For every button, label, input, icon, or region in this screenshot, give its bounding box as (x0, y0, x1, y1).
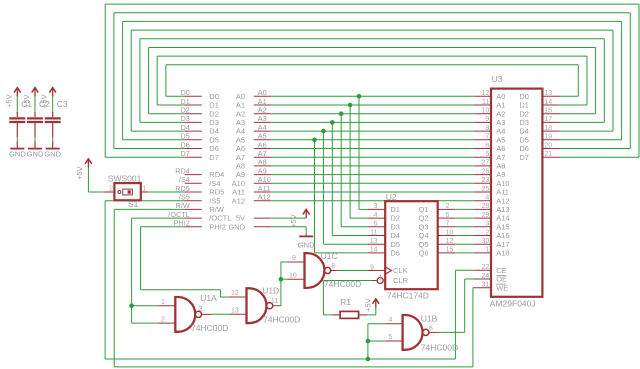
svg-text:12: 12 (231, 290, 239, 297)
svg-text:A7: A7 (258, 149, 267, 158)
svg-text:D4: D4 (209, 127, 219, 136)
svg-text:2: 2 (161, 316, 165, 323)
svg-text:1: 1 (485, 247, 489, 254)
svg-text:/OCTL: /OCTL (168, 210, 190, 219)
svg-text:A6: A6 (236, 144, 245, 153)
svg-text:A11: A11 (232, 188, 245, 197)
svg-text:D6: D6 (180, 140, 189, 149)
svg-text:A2: A2 (258, 106, 267, 115)
svg-text:74HC174D: 74HC174D (387, 291, 429, 301)
svg-text:5: 5 (389, 334, 393, 341)
svg-text:GND: GND (298, 241, 315, 250)
svg-text:D5: D5 (209, 135, 219, 144)
svg-text:29: 29 (482, 212, 490, 219)
svg-text:5: 5 (446, 212, 450, 219)
svg-text:74HC00D: 74HC00D (421, 342, 458, 352)
svg-text:7: 7 (446, 221, 450, 228)
svg-text:14: 14 (370, 247, 378, 254)
svg-text:A1: A1 (258, 97, 267, 106)
svg-text:4: 4 (374, 212, 378, 219)
svg-text:D3: D3 (519, 118, 529, 127)
svg-text:A9: A9 (236, 170, 245, 179)
svg-text:U3: U3 (492, 74, 503, 84)
svg-text:10: 10 (482, 108, 490, 115)
svg-text:A7: A7 (496, 153, 505, 162)
svg-text:A2: A2 (496, 109, 505, 118)
svg-text:PHI2: PHI2 (174, 219, 190, 228)
svg-text:+5V: +5V (289, 213, 298, 228)
svg-text:D1: D1 (519, 101, 529, 110)
svg-text:8: 8 (332, 263, 336, 270)
svg-text:OE: OE (496, 275, 507, 284)
svg-text:Q5: Q5 (418, 240, 428, 249)
svg-text:D2: D2 (180, 106, 189, 115)
svg-text:CLK: CLK (393, 266, 408, 275)
svg-text:D4: D4 (519, 127, 529, 136)
svg-text:D2: D2 (390, 214, 400, 223)
svg-text:1: 1 (379, 274, 383, 281)
svg-text:3: 3 (199, 306, 203, 313)
svg-text:D7: D7 (180, 149, 189, 158)
svg-text:RD5: RD5 (175, 184, 190, 193)
svg-text:8: 8 (485, 125, 489, 132)
svg-text:A13: A13 (496, 205, 509, 214)
svg-text:A10: A10 (496, 179, 509, 188)
svg-text:13: 13 (231, 308, 239, 315)
svg-text:13: 13 (370, 238, 378, 245)
svg-text:+5V: +5V (40, 93, 49, 108)
svg-text:6: 6 (485, 142, 489, 149)
svg-text:/S4: /S4 (209, 179, 220, 188)
svg-text:D2: D2 (519, 109, 529, 118)
svg-text:D7: D7 (519, 153, 529, 162)
svg-text:A3: A3 (236, 118, 245, 127)
svg-text:/S5: /S5 (179, 193, 190, 202)
svg-text:D3: D3 (180, 114, 189, 123)
svg-text:74HC00D: 74HC00D (191, 323, 228, 333)
svg-text:AM29F040J: AM29F040J (490, 299, 536, 309)
svg-text:10: 10 (446, 229, 454, 236)
svg-text:A3: A3 (258, 114, 267, 123)
svg-text:D5: D5 (519, 135, 529, 144)
svg-text:U1B: U1B (421, 314, 438, 324)
svg-text:R/W: R/W (209, 205, 225, 214)
svg-text:GND: GND (27, 150, 44, 159)
svg-text:4: 4 (389, 317, 393, 324)
svg-text:12: 12 (482, 90, 490, 97)
svg-text:74HC00D: 74HC00D (324, 279, 361, 289)
svg-text:/S5: /S5 (209, 196, 220, 205)
svg-text:PHI2: PHI2 (209, 222, 226, 231)
svg-text:5: 5 (485, 151, 489, 158)
svg-text:D6: D6 (519, 144, 529, 153)
svg-text:A0: A0 (496, 92, 505, 101)
svg-text:A8: A8 (236, 162, 245, 171)
svg-text:A0: A0 (236, 92, 245, 101)
svg-text:11: 11 (271, 298, 278, 305)
svg-text:D1: D1 (209, 101, 219, 110)
svg-text:D5: D5 (390, 240, 400, 249)
svg-text:D3: D3 (390, 222, 400, 231)
svg-text:24: 24 (482, 273, 490, 280)
svg-text:Q3: Q3 (418, 222, 428, 231)
svg-text:D3: D3 (209, 118, 219, 127)
svg-text:S1: S1 (128, 199, 139, 209)
svg-text:+5V: +5V (75, 165, 84, 180)
svg-text:A8: A8 (258, 158, 267, 167)
svg-text:RD4: RD4 (209, 170, 224, 179)
svg-text:C3: C3 (57, 99, 68, 109)
svg-text:+5V: +5V (22, 93, 31, 108)
svg-text:D7: D7 (209, 153, 219, 162)
svg-text:18: 18 (544, 125, 552, 132)
svg-text:A12: A12 (232, 196, 245, 205)
svg-text:9: 9 (292, 255, 296, 262)
svg-text:RD5: RD5 (209, 188, 224, 197)
svg-text:A10: A10 (258, 175, 271, 184)
svg-text:17: 17 (544, 116, 552, 123)
svg-text:WE: WE (496, 283, 508, 292)
svg-text:A4: A4 (496, 127, 505, 136)
svg-text:3: 3 (374, 203, 378, 210)
svg-text:A7: A7 (236, 153, 245, 162)
svg-text:A17: A17 (496, 240, 509, 249)
svg-text:D0: D0 (519, 92, 529, 101)
svg-text:A6: A6 (258, 140, 267, 149)
svg-text:+5V: +5V (364, 297, 373, 312)
svg-text:11: 11 (482, 99, 489, 106)
svg-text:A12: A12 (258, 193, 271, 202)
svg-text:D0: D0 (209, 92, 219, 101)
svg-text:U1C: U1C (321, 251, 338, 261)
svg-text:22: 22 (482, 264, 490, 271)
svg-text:SWS001: SWS001 (108, 173, 142, 183)
svg-text:A12: A12 (496, 196, 509, 205)
svg-text:D6: D6 (209, 144, 219, 153)
svg-text:+5V: +5V (4, 93, 13, 108)
svg-text:25: 25 (482, 186, 490, 193)
svg-text:D4: D4 (390, 231, 400, 240)
svg-text:9: 9 (370, 264, 374, 271)
svg-text:A18: A18 (496, 249, 509, 258)
svg-text:A8: A8 (496, 162, 505, 171)
svg-text:A9: A9 (496, 170, 505, 179)
svg-text:74HC00D: 74HC00D (263, 315, 300, 325)
svg-text:A5: A5 (496, 135, 505, 144)
svg-text:GND: GND (9, 150, 26, 159)
svg-text:A14: A14 (496, 214, 509, 223)
svg-text:14: 14 (544, 99, 552, 106)
svg-text:A5: A5 (258, 132, 267, 141)
svg-text:Q4: Q4 (418, 231, 428, 240)
svg-text:D0: D0 (180, 88, 189, 97)
svg-text:9: 9 (485, 116, 489, 123)
svg-text:D6: D6 (390, 249, 400, 258)
svg-text:A6: A6 (496, 144, 505, 153)
svg-text:A1: A1 (496, 101, 505, 110)
svg-text:4: 4 (485, 195, 489, 202)
svg-text:2: 2 (446, 203, 450, 210)
svg-text:31: 31 (482, 282, 490, 289)
svg-text:Q2: Q2 (418, 214, 428, 223)
svg-text:3: 3 (485, 221, 489, 228)
svg-text:6: 6 (429, 325, 433, 332)
svg-text:D1: D1 (180, 97, 189, 106)
svg-text:28: 28 (482, 203, 490, 210)
svg-text:A2: A2 (236, 109, 245, 118)
svg-text:21: 21 (544, 151, 552, 158)
svg-text:A3: A3 (496, 118, 505, 127)
svg-text:30: 30 (482, 238, 490, 245)
svg-text:2: 2 (485, 229, 489, 236)
svg-text:R1: R1 (340, 297, 351, 307)
svg-text:27: 27 (482, 160, 490, 167)
svg-text:D4: D4 (180, 123, 189, 132)
svg-text:RD4: RD4 (175, 166, 190, 175)
svg-text:U1A: U1A (200, 293, 217, 303)
svg-text:11: 11 (370, 229, 377, 236)
svg-text:CLR: CLR (393, 276, 409, 285)
svg-text:23: 23 (482, 177, 490, 184)
svg-text:Q1: Q1 (418, 205, 428, 214)
svg-text:15: 15 (544, 108, 552, 115)
svg-text:26: 26 (482, 168, 490, 175)
svg-text:2: 2 (109, 186, 113, 193)
svg-text:A16: A16 (496, 231, 509, 240)
svg-text:6: 6 (374, 221, 378, 228)
svg-text:A5: A5 (236, 135, 245, 144)
svg-text:/S4: /S4 (179, 175, 190, 184)
svg-text:D5: D5 (180, 132, 189, 141)
svg-text:Q6: Q6 (418, 249, 428, 258)
svg-text:A10: A10 (232, 179, 245, 188)
svg-text:1: 1 (142, 186, 146, 193)
svg-text:A4: A4 (236, 127, 245, 136)
svg-text:/OCTL: /OCTL (209, 214, 231, 223)
svg-text:1: 1 (161, 299, 165, 306)
svg-text:A9: A9 (258, 166, 267, 175)
svg-text:A11: A11 (496, 188, 509, 197)
svg-text:A1: A1 (236, 101, 245, 110)
svg-text:GND: GND (228, 222, 245, 231)
svg-text:7: 7 (485, 134, 489, 141)
svg-text:10: 10 (289, 272, 297, 279)
svg-text:5V: 5V (236, 214, 245, 223)
svg-text:13: 13 (544, 90, 552, 97)
svg-text:A0: A0 (258, 88, 267, 97)
svg-text:CE: CE (496, 266, 506, 275)
svg-text:GND: GND (44, 150, 61, 159)
svg-text:19: 19 (544, 134, 552, 141)
svg-text:R/W: R/W (176, 201, 190, 210)
svg-text:20: 20 (544, 142, 552, 149)
svg-text:15: 15 (446, 247, 454, 254)
svg-text:A11: A11 (258, 184, 270, 193)
svg-text:D1: D1 (390, 205, 400, 214)
svg-text:12: 12 (446, 238, 454, 245)
svg-text:U2: U2 (386, 192, 397, 202)
svg-text:A4: A4 (258, 123, 267, 132)
svg-text:U1D: U1D (262, 286, 279, 296)
svg-text:D2: D2 (209, 109, 219, 118)
svg-text:A15: A15 (496, 222, 509, 231)
